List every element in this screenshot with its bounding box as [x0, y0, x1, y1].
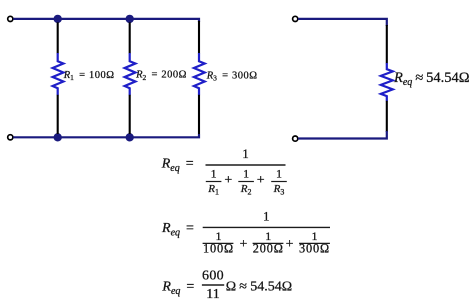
svg-text:600: 600 [202, 268, 224, 283]
svg-text:+: + [224, 173, 232, 188]
svg-text:Ω≈54.54Ω: Ω≈54.54Ω [226, 280, 292, 295]
wire R3 top lead [198, 21, 200, 54]
svg-text:300Ω: 300Ω [299, 242, 330, 256]
wire bottom rail (left circuit) with corner up from R3 [13, 134, 199, 137]
formula 2 main fraction bar [203, 226, 330, 228]
wire bottom rail (right circuit) with corner [298, 131, 387, 139]
svg-text:1: 1 [211, 166, 217, 180]
wire R2 top lead [129, 22, 131, 53]
node dot top rail / R2 [126, 15, 134, 23]
svg-text:11: 11 [206, 287, 219, 299]
svg-text:R3=300Ω: R3=300Ω [206, 70, 258, 82]
resistor Req zigzag [381, 63, 393, 101]
svg-text:+: + [257, 173, 265, 188]
svg-text:200Ω: 200Ω [253, 242, 284, 256]
svg-text:R2=200Ω: R2=200Ω [135, 70, 187, 82]
resistor R3 zigzag [194, 53, 205, 95]
svg-text:R2: R2 [240, 183, 252, 196]
resistor R1 zigzag [53, 53, 64, 95]
wire top rail (right circuit) with corner [298, 19, 387, 26]
wire Req bottom lead [386, 101, 388, 132]
terminal T4 (right circuit, bottom-left open dot) [293, 136, 298, 141]
node dot top rail / R1 [54, 15, 62, 23]
svg-text:+: + [239, 237, 247, 252]
formula 1 main fraction bar [206, 164, 286, 166]
wire Req top lead [386, 25, 388, 64]
terminal T1 (left circuit, top-left open dot) [8, 16, 13, 21]
svg-text:Req=: Req= [161, 221, 194, 238]
resistor R2 zigzag [125, 53, 136, 95]
svg-text:R3: R3 [273, 183, 285, 196]
svg-text:1: 1 [243, 166, 249, 180]
svg-text:Req=: Req= [161, 157, 194, 174]
svg-text:Req=: Req= [161, 280, 194, 297]
formula 3 fraction bar [202, 284, 224, 286]
wire R1 top lead [57, 22, 59, 53]
svg-text:1: 1 [263, 209, 270, 224]
wire R2 bottom lead [129, 95, 131, 134]
svg-text:100Ω: 100Ω [203, 242, 234, 256]
terminal T3 (right circuit, top-left open dot) [293, 16, 298, 21]
svg-text:1: 1 [242, 146, 249, 161]
svg-text:R1=100Ω: R1=100Ω [63, 70, 115, 82]
svg-text:R1: R1 [207, 183, 219, 196]
node dot bottom rail / R2 [126, 133, 134, 141]
terminal T2 (left circuit, bottom-left open dot) [8, 135, 13, 140]
wire R1 bottom lead [57, 95, 59, 134]
wire top rail (left circuit) with corner down to R3 [13, 19, 199, 22]
svg-text:Req≈54.54Ω: Req≈54.54Ω [393, 70, 470, 88]
node dot bottom rail / R1 [54, 133, 62, 141]
wire R3 bottom lead [198, 95, 200, 134]
svg-text:1: 1 [276, 166, 282, 180]
svg-text:+: + [286, 237, 294, 252]
